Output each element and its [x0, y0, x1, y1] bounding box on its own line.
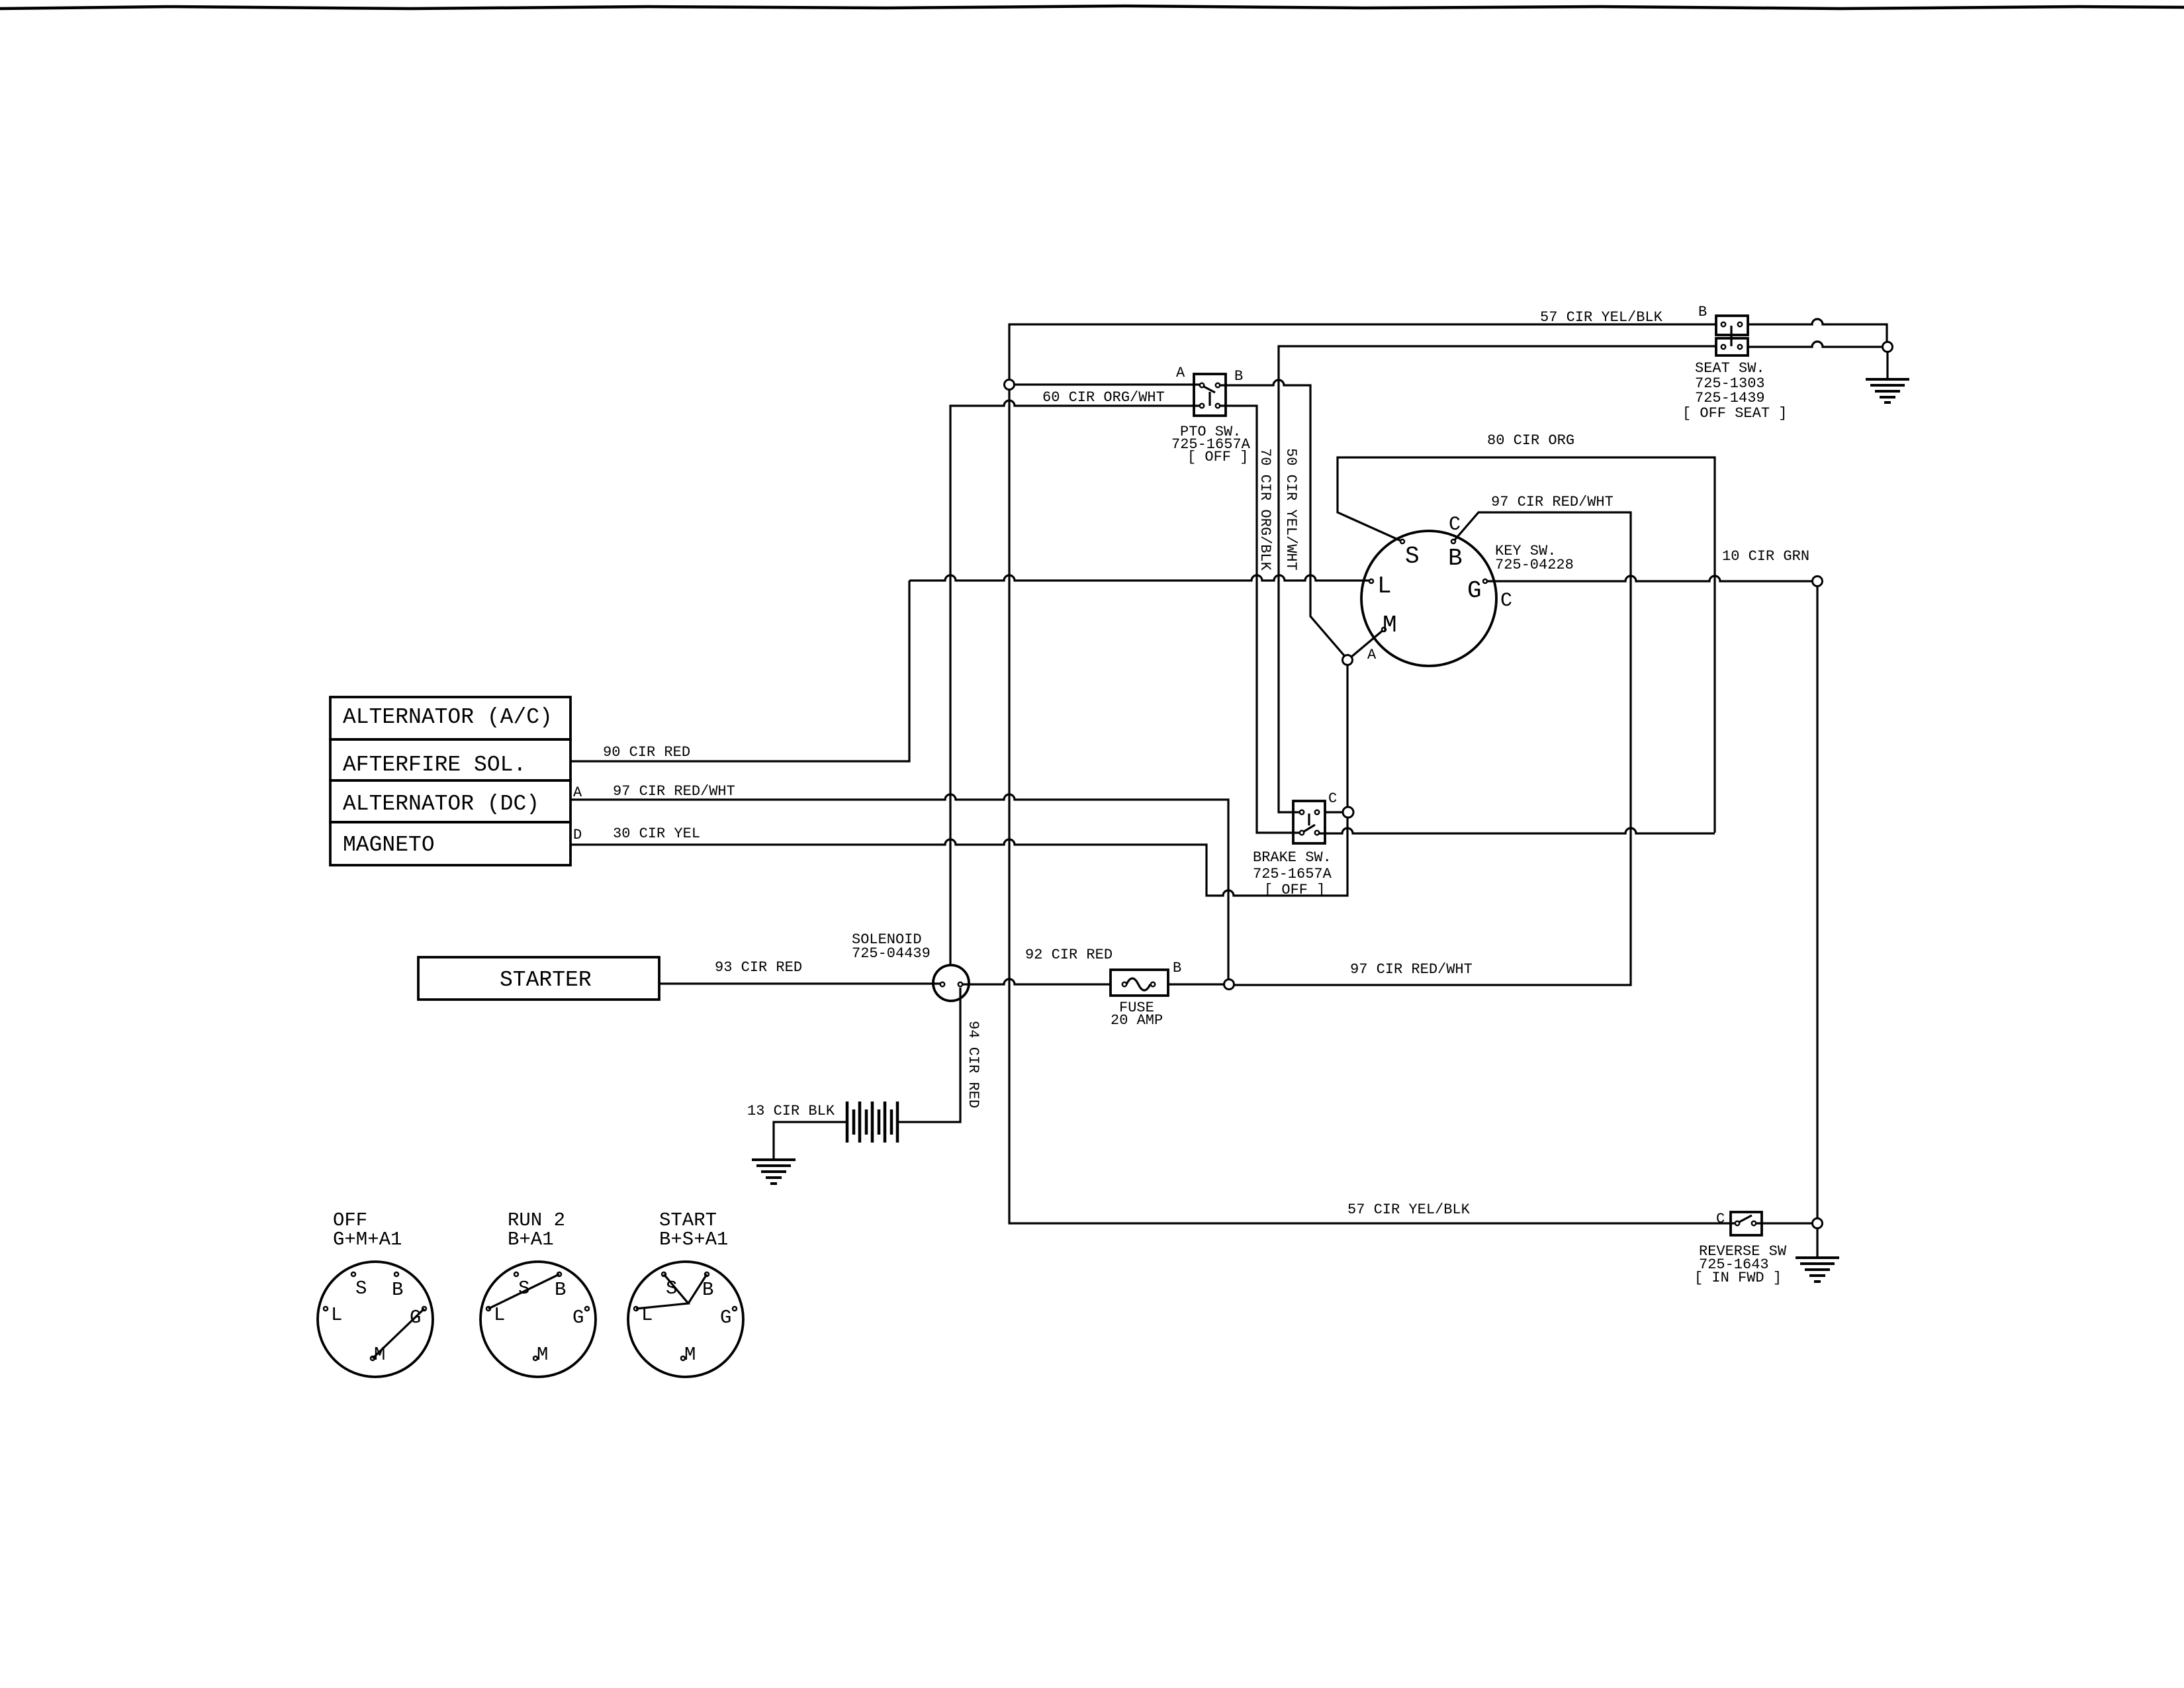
- svg-text:C: C: [1449, 514, 1461, 536]
- svg-text:A: A: [1176, 365, 1185, 381]
- svg-text:G+M+A1: G+M+A1: [333, 1229, 402, 1250]
- PTO switch 725-1657A: [1194, 374, 1226, 416]
- svg-text:SEAT SW.: SEAT SW.: [1695, 360, 1765, 377]
- svg-text:G: G: [410, 1307, 421, 1329]
- box AFTERFIRE SOL.: [330, 739, 570, 780]
- svg-text:30 CIR YEL: 30 CIR YEL: [613, 825, 700, 842]
- solenoid 725-04439: [933, 965, 969, 1001]
- svg-text:725-04439: 725-04439: [852, 945, 931, 962]
- svg-text:B: B: [392, 1279, 403, 1301]
- svg-text:B: B: [702, 1279, 713, 1301]
- svg-text:725-1657A: 725-1657A: [1253, 866, 1332, 882]
- wire 50 CIR YEL/WHT (seat switch to brake switch): [1279, 346, 1716, 812]
- terminal circle 10 CIR GRN: [1813, 577, 1823, 586]
- svg-text:S: S: [1405, 543, 1420, 570]
- svg-text:G: G: [720, 1307, 731, 1329]
- svg-text:A: A: [1367, 647, 1377, 663]
- svg-text:725-04228: 725-04228: [1495, 557, 1574, 573]
- wire reverse terminal to ground: [1816, 1228, 1818, 1256]
- wire seat terminal to ground: [1886, 352, 1888, 379]
- svg-text:M: M: [1383, 612, 1397, 639]
- svg-text:92 CIR RED: 92 CIR RED: [1025, 947, 1113, 963]
- svg-text:B: B: [1173, 960, 1181, 976]
- svg-text:G: G: [1467, 577, 1482, 604]
- svg-text:80 CIR ORG: 80 CIR ORG: [1487, 432, 1574, 449]
- terminal circle seat switch ground: [1883, 342, 1893, 352]
- svg-text:L: L: [494, 1304, 505, 1326]
- seat switch 725-1303: [1716, 316, 1748, 335]
- svg-text:G: G: [572, 1307, 584, 1329]
- reverse switch 725-1643: [1731, 1212, 1762, 1235]
- svg-text:M: M: [374, 1344, 385, 1366]
- terminal circle reverse switch ground: [1813, 1219, 1823, 1229]
- wire 97 CIR RED/WHT A (alternator DC to fuse junction): [570, 794, 1228, 980]
- wire 30 CIR YEL D (magneto to brake/key A junction): [570, 817, 1347, 896]
- svg-text:B: B: [555, 1279, 566, 1301]
- wire A junction to brake junction: [1346, 665, 1348, 807]
- wire reverse switch to ground terminal: [1754, 1222, 1813, 1224]
- wire 60 circuit PTO B to key switch A junction: [1218, 380, 1347, 659]
- key switch 725-04228: [1361, 531, 1496, 666]
- svg-text:C: C: [1500, 590, 1512, 612]
- svg-text:S: S: [666, 1278, 677, 1299]
- wire 94 CIR RED (solenoid to battery): [897, 988, 960, 1122]
- svg-text:50 CIR YEL/WHT: 50 CIR YEL/WHT: [1283, 448, 1299, 571]
- wire 10 CIR GRN left section (to key switch L): [909, 575, 1371, 581]
- svg-text:C: C: [1716, 1211, 1725, 1227]
- wire 57 CIR YEL/BLK net (key column to seat switch and reverse switch): [1009, 324, 1737, 1223]
- key position circle START: [628, 1262, 743, 1377]
- box ALTERNATOR (DC): [330, 780, 570, 822]
- svg-text:AFTERFIRE SOL.: AFTERFIRE SOL.: [343, 753, 526, 777]
- svg-text:B: B: [1234, 368, 1243, 385]
- svg-text:STARTER: STARTER: [500, 968, 592, 992]
- brake switch 725-1657A: [1293, 801, 1325, 843]
- battery: [847, 1102, 897, 1143]
- junction circle C (brake switch): [1343, 807, 1353, 818]
- svg-text:[ OFF ]: [ OFF ]: [1187, 449, 1248, 465]
- terminal circle node 60 CIR ORG/WHT: [1005, 380, 1015, 390]
- wire 93 CIR RED (starter to solenoid): [659, 982, 942, 984]
- box MAGNETO: [330, 822, 570, 865]
- svg-text:MAGNETO: MAGNETO: [343, 833, 435, 857]
- svg-text:M: M: [684, 1344, 696, 1366]
- wire 10 CIR GRN down to reverse switch junction: [1816, 586, 1818, 1219]
- wire 97 CIR RED/WHT (key switch B to fuse junction): [1234, 512, 1631, 985]
- svg-text:90 CIR RED: 90 CIR RED: [603, 744, 690, 761]
- svg-text:93 CIR RED: 93 CIR RED: [715, 959, 802, 976]
- svg-text:725-1439: 725-1439: [1695, 390, 1765, 406]
- svg-text:57 CIR YEL/BLK: 57 CIR YEL/BLK: [1540, 309, 1663, 326]
- svg-text:13 CIR BLK: 13 CIR BLK: [747, 1103, 835, 1119]
- svg-text:[ OFF SEAT ]: [ OFF SEAT ]: [1682, 405, 1787, 422]
- svg-text:L: L: [331, 1304, 342, 1326]
- wire 10 CIR GRN right section (key switch G to terminal): [1485, 576, 1813, 581]
- svg-text:A: A: [573, 784, 582, 801]
- svg-text:10 CIR GRN: 10 CIR GRN: [1722, 548, 1809, 565]
- svg-text:97 CIR RED/WHT: 97 CIR RED/WHT: [1491, 494, 1614, 510]
- wire 70 CIR ORG/BLK (PTO switch to solenoid and brake switch): [950, 400, 1202, 965]
- svg-text:B: B: [1698, 304, 1707, 320]
- wire 90 CIR RED (afterfire solenoid to lights node): [570, 581, 909, 761]
- svg-text:[ OFF ]: [ OFF ]: [1264, 882, 1325, 898]
- wire fuse to junction circle: [1168, 983, 1224, 985]
- svg-text:B: B: [1448, 545, 1463, 572]
- ground seat switch: [1866, 379, 1909, 402]
- wire 92 CIR RED (solenoid to fuse): [960, 979, 1111, 984]
- wire 80 CIR ORG (key switch S through brake switch): [1338, 457, 1715, 833]
- svg-text:S: S: [518, 1278, 529, 1299]
- svg-text:97 CIR RED/WHT: 97 CIR RED/WHT: [613, 783, 735, 800]
- svg-text:S: S: [355, 1278, 367, 1299]
- svg-text:ALTERNATOR (A/C): ALTERNATOR (A/C): [343, 705, 553, 729]
- svg-text:D: D: [573, 827, 582, 843]
- svg-text:70 CIR ORG/BLK: 70 CIR ORG/BLK: [1257, 448, 1273, 571]
- wire 13 CIR BLK (battery to ground): [774, 1122, 847, 1160]
- svg-text:B+A1: B+A1: [508, 1229, 554, 1250]
- svg-text:L: L: [641, 1304, 653, 1326]
- wire 60 CIR ORG/WHT (node to PTO switch A): [1015, 383, 1202, 385]
- ground battery: [752, 1160, 796, 1184]
- box STARTER: [418, 957, 659, 1000]
- box ALTERNATOR (A/C): [330, 697, 570, 739]
- svg-text:BRAKE SW.: BRAKE SW.: [1253, 849, 1332, 866]
- key position circle RUN 2: [480, 1262, 596, 1377]
- svg-text:94 CIR RED: 94 CIR RED: [965, 1021, 981, 1108]
- svg-text:57 CIR YEL/BLK: 57 CIR YEL/BLK: [1347, 1201, 1471, 1218]
- svg-text:ALTERNATOR (DC): ALTERNATOR (DC): [343, 792, 539, 816]
- svg-text:M: M: [537, 1344, 548, 1366]
- svg-text:L: L: [1377, 573, 1392, 600]
- ground reverse switch: [1796, 1258, 1839, 1282]
- svg-text:20 AMP: 20 AMP: [1111, 1012, 1163, 1029]
- svg-text:[ IN FWD ]: [ IN FWD ]: [1694, 1270, 1782, 1286]
- svg-text:60 CIR ORG/WHT: 60 CIR ORG/WHT: [1042, 389, 1165, 406]
- svg-text:97 CIR RED/WHT: 97 CIR RED/WHT: [1350, 961, 1473, 978]
- junction circle A (key switch): [1343, 655, 1353, 665]
- svg-text:C: C: [1328, 790, 1337, 807]
- junction circle fuse output: [1224, 980, 1234, 990]
- svg-text:B+S+A1: B+S+A1: [659, 1229, 728, 1250]
- key position circle OFF: [318, 1262, 433, 1377]
- wire seat switch B to ground terminal: [1748, 319, 1887, 342]
- fuse 20 AMP: [1111, 970, 1168, 996]
